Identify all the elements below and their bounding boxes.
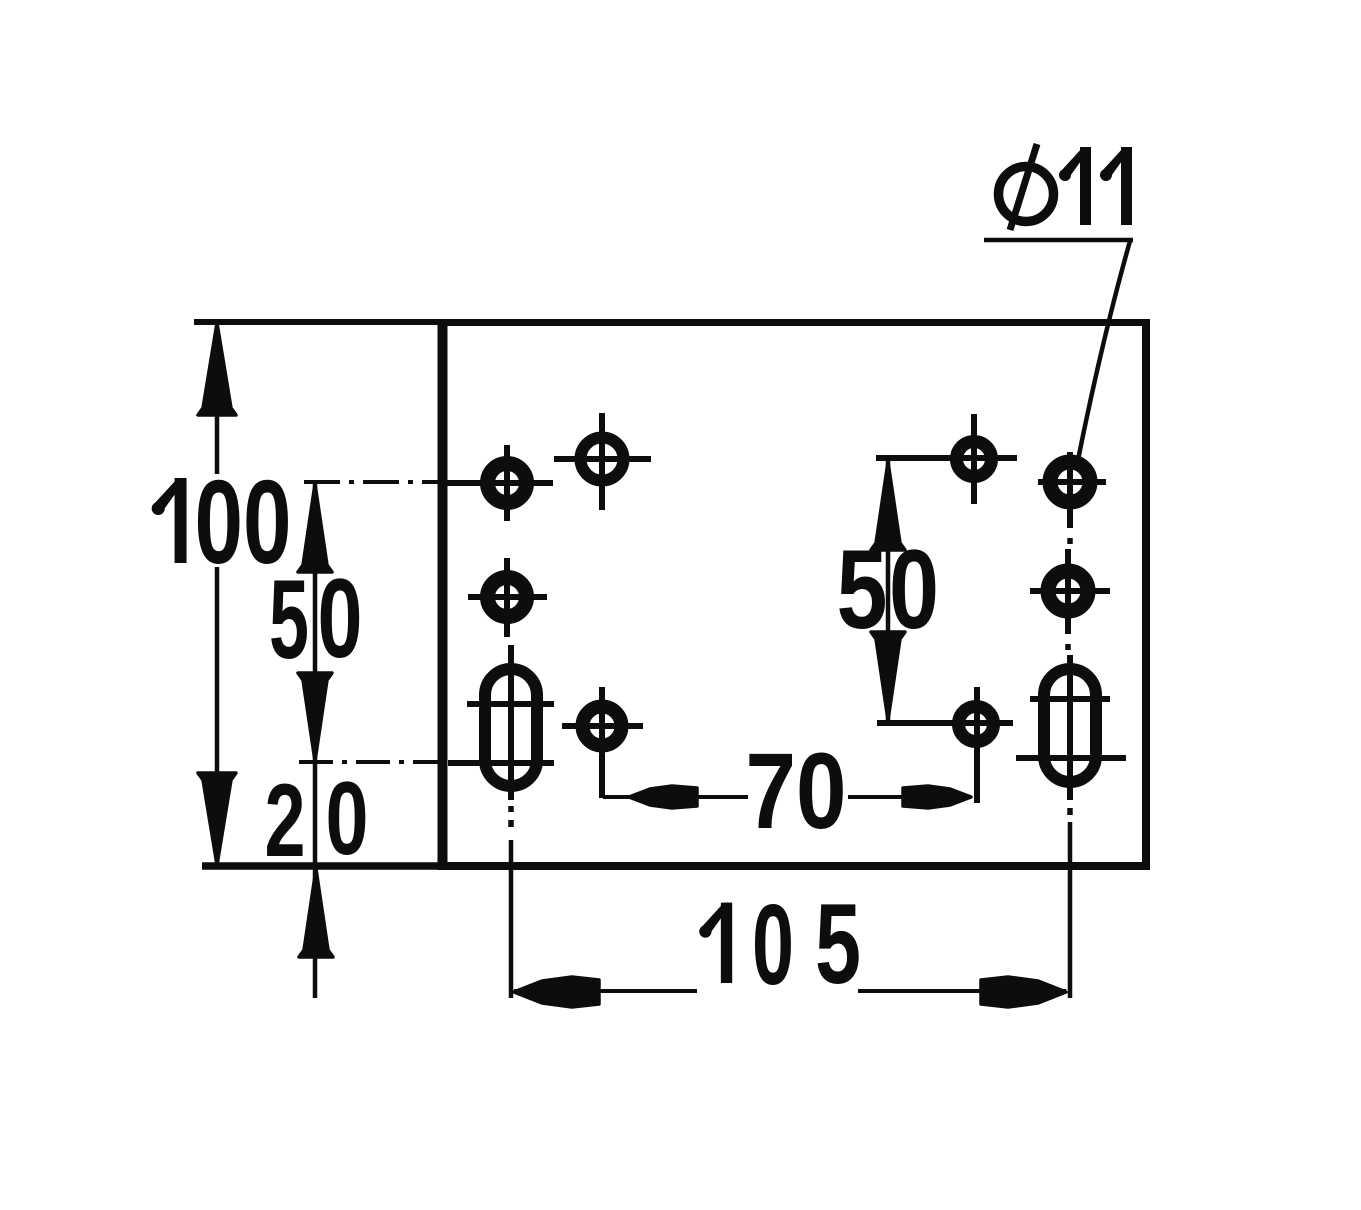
label 100: [152, 478, 187, 563]
dimension 50 right arrow up: [871, 462, 905, 550]
dimension 50 arrow up: [298, 484, 332, 572]
hole A ring: [488, 464, 527, 503]
hole G crosshair: [1038, 479, 1106, 485]
svg-text:2: 2: [265, 763, 306, 879]
dimension 100 line: [215, 326, 220, 474]
svg-text:5: 5: [815, 881, 861, 1008]
slot J (right obround): [1044, 669, 1096, 782]
dimension 105 right extension: [1068, 822, 1073, 998]
hole H ring: [1048, 571, 1088, 611]
plate outline: left edge: [438, 319, 448, 870]
label 105: [699, 903, 732, 983]
hole E crosshair: [562, 723, 643, 729]
plate outline: top edge: [439, 319, 1150, 326]
dimension 100 arrow up: [198, 323, 236, 415]
dimension 50 left: dash-dot line at y=482: [304, 480, 446, 484]
leader line to hole G: [1078, 241, 1130, 460]
hole C crosshair: [468, 594, 547, 600]
bottom extension line: [202, 862, 443, 870]
hole C ring: [488, 578, 527, 617]
plate outline: right edge: [1142, 319, 1150, 870]
plate outline: bottom edge: [438, 862, 1150, 870]
slot D crosshairs: [467, 701, 554, 707]
hole B crosshair: [554, 456, 651, 462]
dimension 50/20 left vertical line: [313, 483, 318, 998]
hole G ring: [1050, 462, 1090, 502]
hole A vertical crosshair: [504, 445, 510, 521]
dimension 50 right vertical line: [886, 458, 891, 724]
dimension 70 arrow left: [629, 786, 697, 808]
diameter symbol: [999, 167, 1054, 222]
slot J crosshairs: [1030, 696, 1110, 702]
dimension 70 arrow right: [903, 786, 971, 808]
dimension 105 line: [514, 989, 697, 993]
label diameter 11: [1059, 147, 1091, 225]
hole H crosshair: [1030, 588, 1110, 594]
svg-text:70: 70: [746, 730, 847, 851]
svg-text:0: 0: [326, 761, 369, 877]
dimension 70 line right: [848, 795, 908, 799]
hole A horizontal crosshair: [443, 480, 553, 486]
dimension 105 arrow right: [981, 977, 1066, 1007]
hole I crosshair + 50 bottom tick: [877, 720, 1013, 726]
dimension 70 line left: [603, 795, 748, 799]
hole F crosshair + 50 top tick: [876, 455, 1017, 461]
dimension 105 left extension: [509, 840, 514, 998]
hole I ring: [959, 707, 994, 742]
svg-text:0: 0: [752, 882, 794, 1009]
dimension 50 right arrow down: [871, 632, 905, 720]
dimension 100 arrow down: [198, 773, 236, 865]
top extension line: [194, 319, 443, 325]
svg-text:0: 0: [889, 527, 939, 652]
dimension 20 arrow up (below plate): [299, 869, 333, 957]
hole E ring: [583, 707, 622, 746]
leader underline: [984, 238, 1133, 243]
svg-text:5: 5: [837, 527, 888, 652]
svg-text:0: 0: [318, 556, 363, 681]
dash-dot line at y=762: [299, 760, 450, 764]
dimension 50 arrow down: [298, 673, 332, 761]
hole F ring: [957, 442, 992, 477]
slot D (left obround): [485, 669, 537, 786]
dimension 105 arrow left: [514, 977, 599, 1007]
svg-text:5: 5: [269, 557, 309, 682]
hole B ring: [581, 438, 624, 481]
